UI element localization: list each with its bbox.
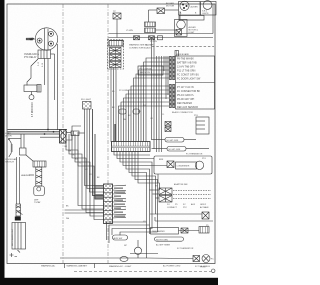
small circle component below cap — [29, 95, 34, 100]
svg-text:AC MAIN: AC MAIN — [200, 206, 209, 209]
svg-text:NO HIT GRN: NO HIT GRN — [169, 149, 181, 151]
heater connector block — [33, 161, 46, 167]
zone label separators bottom — [64, 264, 66, 269]
LOAD DOOR label — [5, 132, 12, 138]
svg-text:DEF AUX SENSOR: DEF AUX SENSOR — [177, 106, 198, 109]
connector strip center — [109, 41, 123, 47]
svg-text:AC POWER CORD: AC POWER CORD — [163, 265, 181, 268]
svg-text:WARNING-FC - LIGHT: WARNING-FC - LIGHT — [109, 265, 132, 268]
svg-text:DEF HEATER: DEF HEATER — [152, 230, 165, 233]
auger motor label — [166, 2, 175, 8]
lower-left sensor wires — [16, 157, 18, 204]
svg-text:P5 A/C GRN YL: P5 A/C GRN YL — [177, 94, 195, 97]
bus inline box — [71, 131, 79, 136]
black connector — [15, 217, 21, 221]
svg-text:FC THERMISTOR: FC THERMISTOR — [186, 154, 203, 156]
svg-text:BLACK CONNECTOR: BLACK CONNECTOR — [172, 111, 193, 114]
svg-text:LT GRN: LT GRN — [126, 30, 133, 32]
svg-text:FD LIGHT: FD LIGHT — [81, 99, 92, 101]
left black scan bar — [0, 0, 5, 285]
svg-text:NO HIT GRN: NO HIT GRN — [167, 140, 179, 142]
run capacitor loop wires — [27, 59, 38, 86]
plus mark bottom left — [10, 253, 18, 257]
board comb wires — [119, 58, 170, 142]
frame border — [7, 4, 215, 264]
svg-text:HEATER: HEATER — [21, 174, 30, 177]
svg-text:PTC RELAY: PTC RELAY — [24, 56, 37, 59]
top horizontals — [109, 33, 214, 35]
svg-text:DEF HEATER: DEF HEATER — [177, 102, 192, 105]
thermostat label — [34, 200, 41, 205]
svg-text:AUX SW: AUX SW — [114, 237, 124, 240]
svg-text:WARNING-CABINET: WARNING-CABINET — [67, 265, 88, 268]
svg-text:CONNECT: CONNECT — [167, 207, 178, 209]
aux capsule — [113, 235, 128, 240]
svg-text:AC SEP TIMER: AC SEP TIMER — [156, 244, 171, 247]
defrost thermostat — [34, 186, 45, 196]
dispenser unit box — [175, 20, 188, 37]
compressor COMP circle — [35, 28, 57, 50]
small ovals mid — [119, 109, 126, 114]
svg-text:MOTOR: MOTOR — [166, 6, 175, 8]
svg-text:AUX: AUX — [191, 203, 196, 206]
P1 wires down — [110, 68, 112, 143]
right trunk verticals — [151, 38, 153, 140]
PTC start relay box — [38, 50, 51, 59]
FD light wires — [85, 109, 104, 186]
wires compressor to bus — [51, 53, 55, 55]
svg-text:WARNING-AC: WARNING-AC — [41, 265, 56, 268]
auger X component — [157, 8, 165, 14]
svg-text:YL: YL — [79, 163, 81, 165]
svg-text:FC THERMISTOR: FC THERMISTOR — [177, 248, 194, 250]
lower right wires — [150, 213, 202, 215]
svg-text:DOOR FAN: DOOR FAN — [5, 158, 17, 161]
svg-text:AUGER: AUGER — [166, 2, 174, 5]
svg-text:4.5 MFD RUN: 4.5 MFD RUN — [32, 102, 34, 117]
svg-text:NO HIT GRN: NO HIT GRN — [156, 239, 168, 241]
long bottom wire — [60, 257, 147, 259]
heater twisted pair — [36, 167, 42, 186]
svg-text:LIGHT: LIGHT — [189, 32, 196, 34]
control board box — [176, 56, 215, 109]
staircase wires middle — [66, 134, 104, 206]
svg-text:MAIN BOARD: MAIN BOARD — [176, 53, 190, 56]
capsule bottom — [155, 237, 184, 241]
sensor block — [11, 223, 26, 250]
svg-text:CONNECTOR BLACK: CONNECTOR BLACK — [129, 47, 151, 50]
svg-text:DOOR: DOOR — [5, 136, 12, 138]
board pin labels — [177, 58, 201, 110]
svg-text:P7 117 V AC IN: P7 117 V AC IN — [177, 86, 194, 89]
FD light connector — [83, 102, 92, 110]
svg-text:P11 LT TAB ORN: P11 LT TAB ORN — [177, 70, 196, 73]
svg-text:OVERLOAD &: OVERLOAD & — [24, 53, 39, 56]
svg-text:GRN 2: GRN 2 — [200, 204, 207, 206]
inline X components on wire — [134, 36, 140, 40]
wire color labels — [65, 30, 189, 223]
lower middle connector block — [104, 184, 113, 224]
svg-text:CONDENSER: CONDENSER — [177, 166, 190, 168]
P1 connector blocks — [110, 48, 122, 54]
door switch label — [5, 158, 17, 164]
svg-text:YL: YL — [162, 114, 164, 116]
svg-text:LT GRN: LT GRN — [150, 41, 157, 43]
svg-text:DEF HEATER OUT: DEF HEATER OUT — [11, 228, 14, 246]
diagonal wire — [26, 155, 34, 162]
right edge verticals top — [212, 4, 214, 34]
svg-text:AUGER: AUGER — [191, 6, 199, 9]
svg-text:LOAD: LOAD — [5, 132, 11, 135]
svg-text:FC CONST GRY BU: FC CONST GRY BU — [177, 74, 199, 77]
board pin strip — [170, 56, 175, 59]
door switch — [8, 138, 21, 157]
svg-text:WARNING SEE AC MAP: WARNING SEE AC MAP — [129, 44, 154, 47]
small box — [20, 148, 27, 155]
big harness connector — [112, 142, 151, 152]
dash-dot zone line right — [107, 4, 109, 264]
wires down from bus — [20, 134, 22, 148]
main bus wires left — [8, 129, 68, 131]
bottom right lamp — [130, 253, 158, 255]
ice chute box — [201, 2, 217, 16]
run capacitor box — [24, 85, 41, 93]
X boxes below board — [165, 122, 171, 127]
svg-text:COMP: COMP — [26, 37, 34, 41]
twisted pair lower — [16, 204, 23, 216]
sp circle — [134, 247, 141, 254]
svg-text:ADAPTIVE DEF: ADAPTIVE DEF — [174, 183, 189, 186]
svg-text:PRINT: PRINT — [200, 267, 207, 269]
capsule tags — [165, 138, 184, 143]
small X box inside — [176, 30, 182, 36]
svg-text:FC CONNECTOR BK: FC CONNECTOR BK — [177, 90, 200, 93]
auger motor box — [179, 2, 201, 16]
PTC relay label — [24, 53, 39, 59]
defrost heater box — [151, 228, 179, 235]
condenser fan section — [154, 156, 212, 174]
svg-text:BRN: BRN — [159, 159, 164, 161]
svg-text:BATTERY AB TAB: BATTERY AB TAB — [177, 62, 197, 65]
bundle bottom middle bends — [107, 222, 147, 240]
svg-text:SWITCH: SWITCH — [5, 162, 14, 164]
terminal strip section — [159, 188, 172, 195]
svg-text:CHUTE: CHUTE — [202, 13, 209, 15]
margin dash line — [74, 270, 211, 272]
dash-dot zone line left — [62, 4, 64, 264]
label box P1 — [138, 66, 163, 75]
svg-text:P6 AD GRY WH: P6 AD GRY WH — [177, 98, 194, 101]
svg-text:13 A/V TAB GRY: 13 A/V TAB GRY — [177, 66, 195, 69]
bottom black scan bar — [0, 278, 218, 285]
AC section dashed boundary — [152, 46, 214, 48]
svg-text:FC DOOR LIGHT SW: FC DOOR LIGHT SW — [177, 78, 201, 81]
svg-text:P8-TAB WH-BK: P8-TAB WH-BK — [177, 58, 194, 61]
horizontal box below — [179, 16, 204, 21]
wire junction blobs — [95, 194, 104, 200]
svg-text:TSTAT: TSTAT — [34, 201, 41, 204]
wires below big connector — [114, 152, 150, 156]
svg-text:P2 CONN: P2 CONN — [119, 90, 128, 92]
bottom zone labels — [41, 265, 132, 268]
stubs to connector — [65, 209, 104, 211]
auger hatched strips — [145, 22, 156, 27]
bus junction connector — [60, 130, 67, 144]
